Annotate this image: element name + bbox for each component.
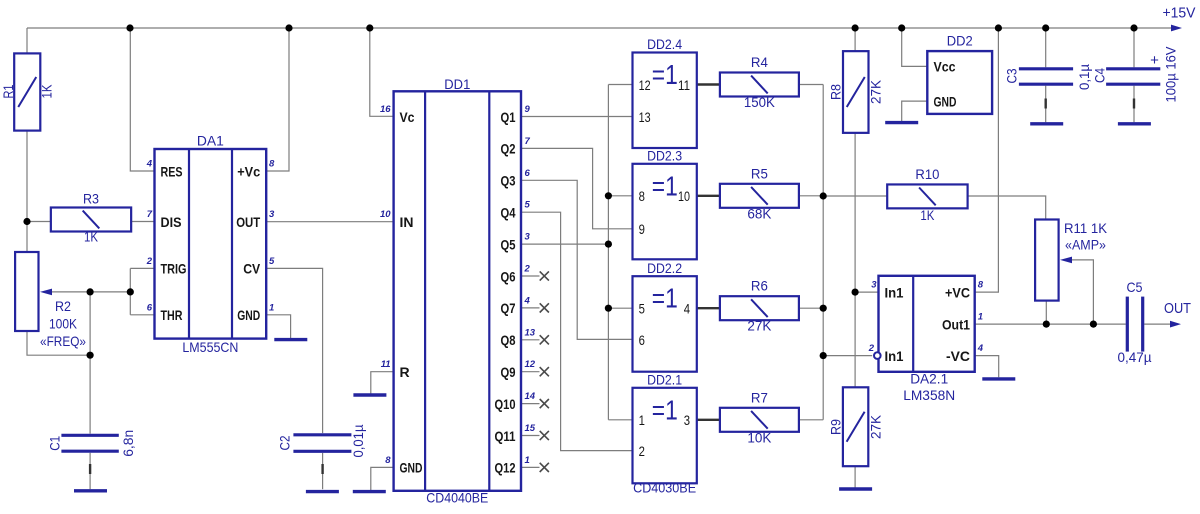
svg-text:R4: R4 <box>751 54 768 70</box>
svg-text:In1: In1 <box>885 348 904 364</box>
svg-text:3: 3 <box>684 413 690 428</box>
svg-text:-VC: -VC <box>946 348 970 364</box>
svg-text:+Vc: +Vc <box>237 163 260 179</box>
svg-text:OUT: OUT <box>236 214 260 230</box>
svg-text:OUT: OUT <box>1164 301 1191 317</box>
svg-text:1K: 1K <box>920 207 935 223</box>
svg-text:DA1: DA1 <box>197 133 224 149</box>
svg-text:DD2.4: DD2.4 <box>647 36 682 52</box>
svg-text:R8: R8 <box>828 84 844 100</box>
svg-text:Q3: Q3 <box>501 173 516 189</box>
svg-text:16: 16 <box>380 104 391 115</box>
svg-text:R6: R6 <box>751 278 768 294</box>
svg-text:27K: 27K <box>747 318 772 334</box>
svg-text:27K: 27K <box>868 79 884 104</box>
svg-text:C2: C2 <box>277 435 293 450</box>
svg-text:DA2.1: DA2.1 <box>910 371 948 387</box>
svg-text:DD2.1: DD2.1 <box>647 372 682 388</box>
svg-text:100µ 16V: 100µ 16V <box>1162 46 1178 103</box>
svg-text:Q6: Q6 <box>501 268 516 284</box>
svg-text:Q5: Q5 <box>501 236 516 252</box>
svg-text:2: 2 <box>146 256 153 267</box>
svg-text:7: 7 <box>147 209 153 220</box>
svg-text:Q4: Q4 <box>501 205 516 221</box>
svg-text:1K: 1K <box>39 84 55 99</box>
svg-text:R1: R1 <box>0 84 16 98</box>
svg-text:3: 3 <box>269 209 275 220</box>
svg-text:0,01µ: 0,01µ <box>350 425 366 458</box>
svg-text:R3: R3 <box>83 191 99 207</box>
svg-text:RES: RES <box>161 163 183 179</box>
svg-text:R9: R9 <box>828 419 844 435</box>
svg-text:LM555CN: LM555CN <box>182 339 238 355</box>
svg-text:Q1: Q1 <box>501 109 516 125</box>
svg-text:7: 7 <box>525 136 531 147</box>
svg-text:5: 5 <box>525 200 531 211</box>
svg-text:Q9: Q9 <box>501 364 516 380</box>
svg-text:10K: 10K <box>747 429 772 445</box>
svg-text:LM358N: LM358N <box>903 387 955 403</box>
svg-text:12: 12 <box>639 78 651 93</box>
svg-text:3: 3 <box>871 280 877 291</box>
svg-text:C4: C4 <box>1091 68 1107 83</box>
svg-text:R11 1K: R11 1K <box>1064 220 1108 236</box>
svg-text:«AMP»: «AMP» <box>1065 236 1106 252</box>
svg-text:2: 2 <box>524 264 531 275</box>
svg-text:Q2: Q2 <box>501 141 516 157</box>
svg-text:C3: C3 <box>1003 68 1019 83</box>
svg-text:8: 8 <box>269 159 275 170</box>
svg-text:Q8: Q8 <box>501 332 516 348</box>
svg-text:Out1: Out1 <box>942 316 970 332</box>
svg-text:10: 10 <box>380 209 391 220</box>
svg-text:CD4040BE: CD4040BE <box>426 489 488 505</box>
svg-text:4: 4 <box>977 343 984 354</box>
svg-text:6: 6 <box>147 302 153 313</box>
svg-text:Q12: Q12 <box>495 460 516 476</box>
svg-text:R10: R10 <box>915 166 939 182</box>
svg-text:6: 6 <box>525 168 531 179</box>
svg-text:DD1: DD1 <box>444 76 470 92</box>
svg-text:8: 8 <box>385 455 391 466</box>
svg-text:5: 5 <box>269 256 275 267</box>
svg-text:+: + <box>1150 52 1159 69</box>
svg-text:9: 9 <box>639 222 645 237</box>
svg-text:14: 14 <box>525 391 536 402</box>
svg-text:R7: R7 <box>751 389 768 405</box>
svg-text:«FREQ»: «FREQ» <box>40 333 86 349</box>
svg-text:2: 2 <box>868 343 875 354</box>
svg-text:1: 1 <box>525 455 530 466</box>
svg-text:GND: GND <box>237 307 260 323</box>
svg-text:6: 6 <box>639 333 645 348</box>
svg-text:6,8n: 6,8n <box>120 430 136 457</box>
svg-text:4: 4 <box>684 302 691 317</box>
svg-text:Q10: Q10 <box>495 396 516 412</box>
svg-text:+VC: +VC <box>945 284 970 300</box>
svg-text:1: 1 <box>639 413 645 428</box>
svg-text:2: 2 <box>639 444 645 459</box>
svg-text:CD4030BE: CD4030BE <box>633 480 696 496</box>
svg-text:4: 4 <box>146 159 153 170</box>
svg-text:CV: CV <box>243 261 261 277</box>
svg-text:DD2: DD2 <box>947 32 973 48</box>
svg-text:11: 11 <box>381 359 391 370</box>
svg-text:GND: GND <box>400 460 423 476</box>
svg-text:=1: =1 <box>652 170 678 201</box>
svg-text:R2: R2 <box>55 298 71 314</box>
svg-text:Q11: Q11 <box>495 428 516 444</box>
svg-text:1K: 1K <box>84 229 99 245</box>
svg-text:=1: =1 <box>652 394 678 425</box>
svg-text:10: 10 <box>678 189 690 204</box>
svg-text:Vc: Vc <box>400 109 415 125</box>
svg-text:THR: THR <box>161 307 183 323</box>
svg-text:150K: 150K <box>744 94 776 110</box>
svg-text:C1: C1 <box>47 436 63 451</box>
svg-text:GND: GND <box>934 93 957 109</box>
svg-text:13: 13 <box>525 327 536 338</box>
svg-text:+15V: +15V <box>1163 5 1196 22</box>
svg-text:4: 4 <box>524 295 531 306</box>
svg-text:3: 3 <box>525 232 531 243</box>
svg-text:=1: =1 <box>652 283 678 314</box>
svg-text:TRIG: TRIG <box>161 261 187 277</box>
svg-text:100K: 100K <box>49 316 78 332</box>
svg-text:1: 1 <box>269 302 274 313</box>
svg-text:0,1µ: 0,1µ <box>1076 64 1092 90</box>
svg-text:27K: 27K <box>868 414 884 439</box>
svg-text:In1: In1 <box>885 284 904 300</box>
svg-text:8: 8 <box>978 280 984 291</box>
svg-text:Vcc: Vcc <box>934 59 956 75</box>
svg-text:12: 12 <box>525 359 536 370</box>
svg-text:68K: 68K <box>747 205 772 221</box>
svg-text:R5: R5 <box>751 165 768 181</box>
svg-text:R: R <box>400 364 410 380</box>
svg-text:11: 11 <box>678 78 690 93</box>
svg-text:C5: C5 <box>1127 279 1143 295</box>
svg-text:13: 13 <box>639 110 651 125</box>
svg-text:15: 15 <box>525 423 536 434</box>
svg-text:5: 5 <box>639 302 645 317</box>
svg-text:1: 1 <box>978 312 983 323</box>
svg-text:DIS: DIS <box>161 214 182 230</box>
svg-text:9: 9 <box>525 104 531 115</box>
svg-text:0,47µ: 0,47µ <box>1118 349 1152 365</box>
svg-text:DD2.2: DD2.2 <box>647 260 682 276</box>
svg-text:=1: =1 <box>652 59 678 90</box>
svg-text:IN: IN <box>400 214 414 230</box>
svg-text:8: 8 <box>639 189 645 204</box>
svg-text:DD2.3: DD2.3 <box>647 148 682 164</box>
svg-text:Q7: Q7 <box>501 300 516 316</box>
